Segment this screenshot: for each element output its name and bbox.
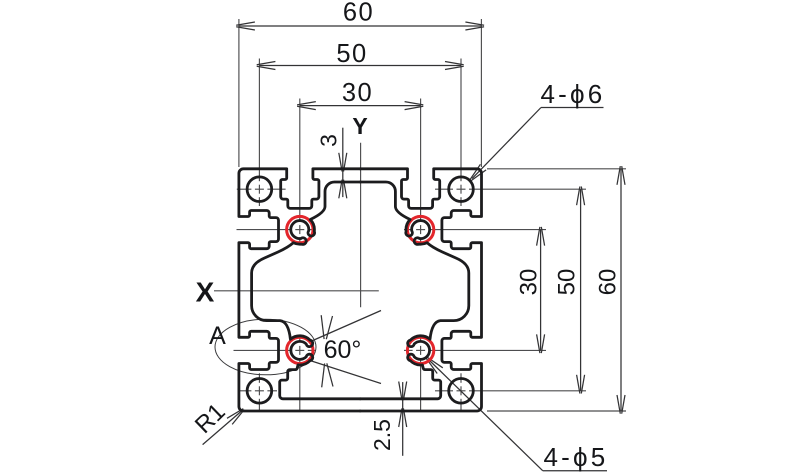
svg-text:60°: 60° [324, 336, 362, 364]
svg-text:A: A [209, 322, 226, 350]
svg-text:X: X [196, 276, 215, 307]
svg-text:50: 50 [336, 40, 367, 68]
svg-text:2.5: 2.5 [369, 419, 395, 451]
svg-text:30: 30 [342, 79, 373, 107]
svg-text:60: 60 [595, 269, 622, 296]
svg-text:4-ϕ5: 4-ϕ5 [544, 442, 609, 472]
svg-text:3: 3 [316, 134, 342, 147]
svg-text:Y: Y [352, 113, 367, 139]
svg-text:30: 30 [516, 269, 543, 296]
svg-text:50: 50 [554, 269, 581, 296]
svg-text:60: 60 [343, 0, 374, 26]
svg-text:4-ϕ6: 4-ϕ6 [541, 79, 606, 109]
